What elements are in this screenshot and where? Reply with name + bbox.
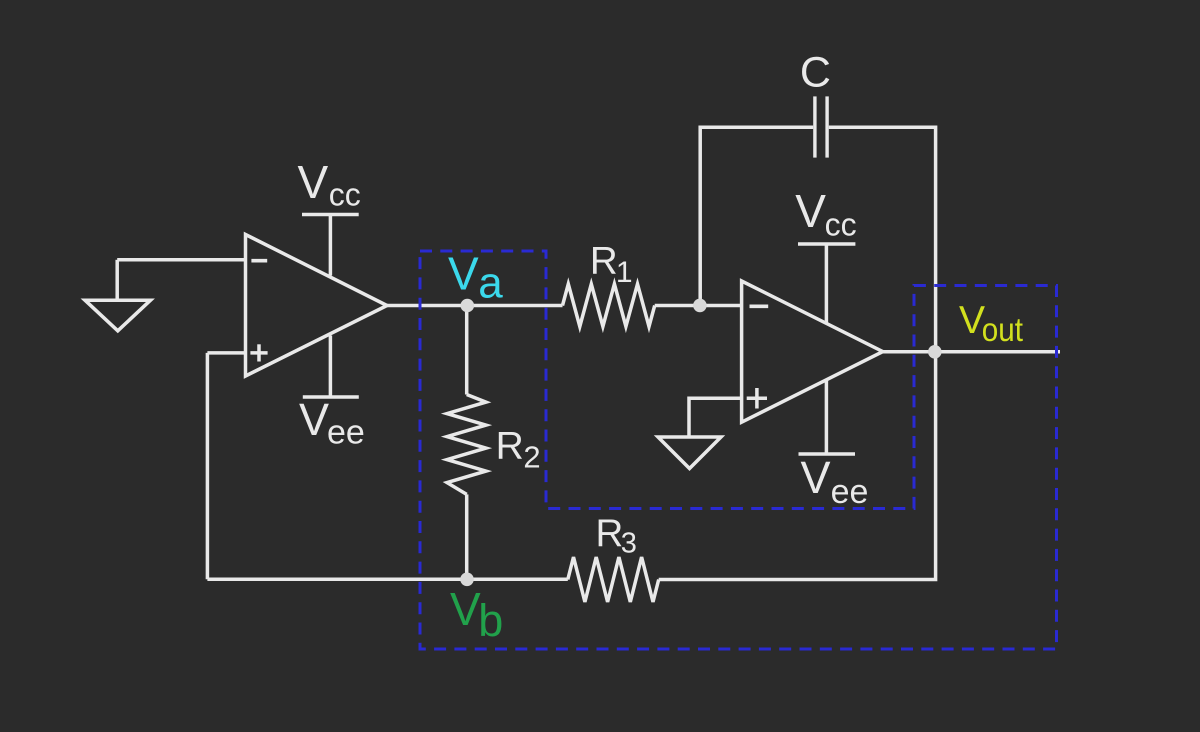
- label R1: [590, 240, 633, 289]
- node label Va (cyan): [448, 248, 503, 308]
- wire from ground G1 to U1 inverting input: [117, 258, 245, 262]
- svg-text:V: V: [801, 452, 831, 503]
- ground G1 (left, at U1 inverting input): [85, 260, 151, 331]
- ground G2: [658, 437, 721, 469]
- svg-text:R: R: [496, 425, 524, 468]
- wire U2 output to node Vout and right edge: [883, 350, 1060, 354]
- svg-text:V: V: [298, 156, 329, 208]
- node label Vb (green): [450, 583, 503, 646]
- svg-text:cc: cc: [825, 207, 857, 243]
- label Vcc of U1: [298, 156, 361, 213]
- op-amp U2: [742, 281, 883, 422]
- svg-text:2: 2: [523, 440, 540, 475]
- resistor R2 (vertical): [447, 395, 486, 495]
- svg-text:cc: cc: [329, 177, 361, 213]
- label Vee of U2: [801, 452, 869, 511]
- svg-text:b: b: [478, 595, 503, 646]
- wire bottom feedback horizontal to node Vb: [207, 578, 567, 582]
- label R2: [496, 425, 541, 475]
- svg-text:V: V: [450, 583, 481, 635]
- resistor R3 (horizontal): [568, 557, 659, 602]
- wire capacitor right plate over to output column: [829, 127, 936, 351]
- wire R1 to node and U2 inverting input: [655, 304, 742, 308]
- Vee supply symbol of U1: [303, 336, 359, 398]
- wire U2 non-inverting input to ground G2: [689, 398, 742, 437]
- label R3: [596, 512, 637, 560]
- svg-text:R: R: [590, 240, 618, 283]
- svg-text:R: R: [596, 512, 624, 555]
- svg-text:3: 3: [621, 528, 637, 560]
- svg-text:ee: ee: [327, 414, 365, 452]
- label Vee of U1: [299, 394, 365, 452]
- U1 minus pin label: [251, 259, 267, 263]
- svg-text:1: 1: [616, 256, 633, 289]
- wire node Va down to R2: [465, 306, 469, 395]
- wire feedback left vertical (Vb to U1 plus input): [206, 353, 210, 579]
- svg-text:V: V: [299, 394, 329, 445]
- Vee supply symbol of U2: [799, 380, 856, 454]
- svg-text:V: V: [795, 185, 826, 237]
- node Vout junction dot: [928, 345, 942, 359]
- U2 minus pin label: [750, 304, 769, 308]
- svg-text:out: out: [982, 311, 1023, 348]
- svg-text:V: V: [448, 248, 479, 300]
- node at U2 inverting input junction dot: [693, 299, 707, 313]
- Vcc supply symbol of U2: [798, 244, 855, 324]
- dashed highlight region (blue): [420, 251, 1057, 649]
- resistor R1 (horizontal): [563, 284, 655, 327]
- wire U1 non-inverting input stub: [207, 351, 245, 355]
- node Vb junction dot: [460, 573, 474, 587]
- svg-text:ee: ee: [831, 473, 869, 511]
- Vcc supply symbol of U1: [302, 215, 359, 276]
- wire R2 to node Vb: [465, 494, 469, 579]
- node Va junction dot: [461, 299, 475, 313]
- node label Vout (yellow): [959, 299, 1023, 348]
- wire node Vb through R3 row to output column: [659, 352, 936, 580]
- label Vcc of U2: [795, 185, 856, 243]
- wire U1 output to node Va and to R1: [387, 304, 563, 308]
- svg-text:C: C: [800, 48, 831, 96]
- U1 plus pin label: [250, 344, 267, 361]
- U2 plus pin label: [747, 388, 767, 409]
- svg-text:a: a: [478, 259, 503, 308]
- capacitor C plates: [815, 96, 827, 157]
- wire node up to capacitor (left branch): [700, 127, 813, 305]
- op-amp U1: [246, 235, 388, 377]
